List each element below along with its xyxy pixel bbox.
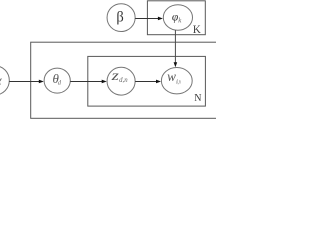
- arrowhead theta to z: [102, 80, 107, 84]
- node theta_d: [44, 68, 70, 93]
- svg-text:β: β: [116, 9, 123, 25]
- node alpha (cut off at left edge): [0, 66, 9, 95]
- svg-text:w: w: [167, 69, 176, 84]
- wire alpha to theta: [9, 80, 39, 82]
- node z_dn: [107, 67, 135, 95]
- plate D (document plate, right edge cut off): [31, 42, 231, 118]
- svg-text:N: N: [194, 93, 201, 104]
- wire theta to z: [70, 80, 102, 82]
- svg-text:d,n: d,n: [176, 78, 181, 85]
- node phi_k: [163, 5, 192, 30]
- arrowhead phi to w: [174, 62, 178, 67]
- arrowhead z to w: [156, 80, 161, 84]
- plate N: [88, 56, 206, 106]
- plate K: [147, 1, 205, 35]
- node w_dn: [161, 68, 192, 94]
- wire z to w: [135, 80, 157, 82]
- svg-text:d,n: d,n: [119, 77, 128, 84]
- arrowhead alpha to theta: [39, 80, 44, 84]
- svg-text:K: K: [193, 24, 201, 36]
- arrowhead beta to phi: [158, 17, 163, 21]
- node beta: [107, 4, 135, 32]
- wire beta to phi: [135, 17, 158, 19]
- wire phi to w (vertical): [174, 30, 176, 63]
